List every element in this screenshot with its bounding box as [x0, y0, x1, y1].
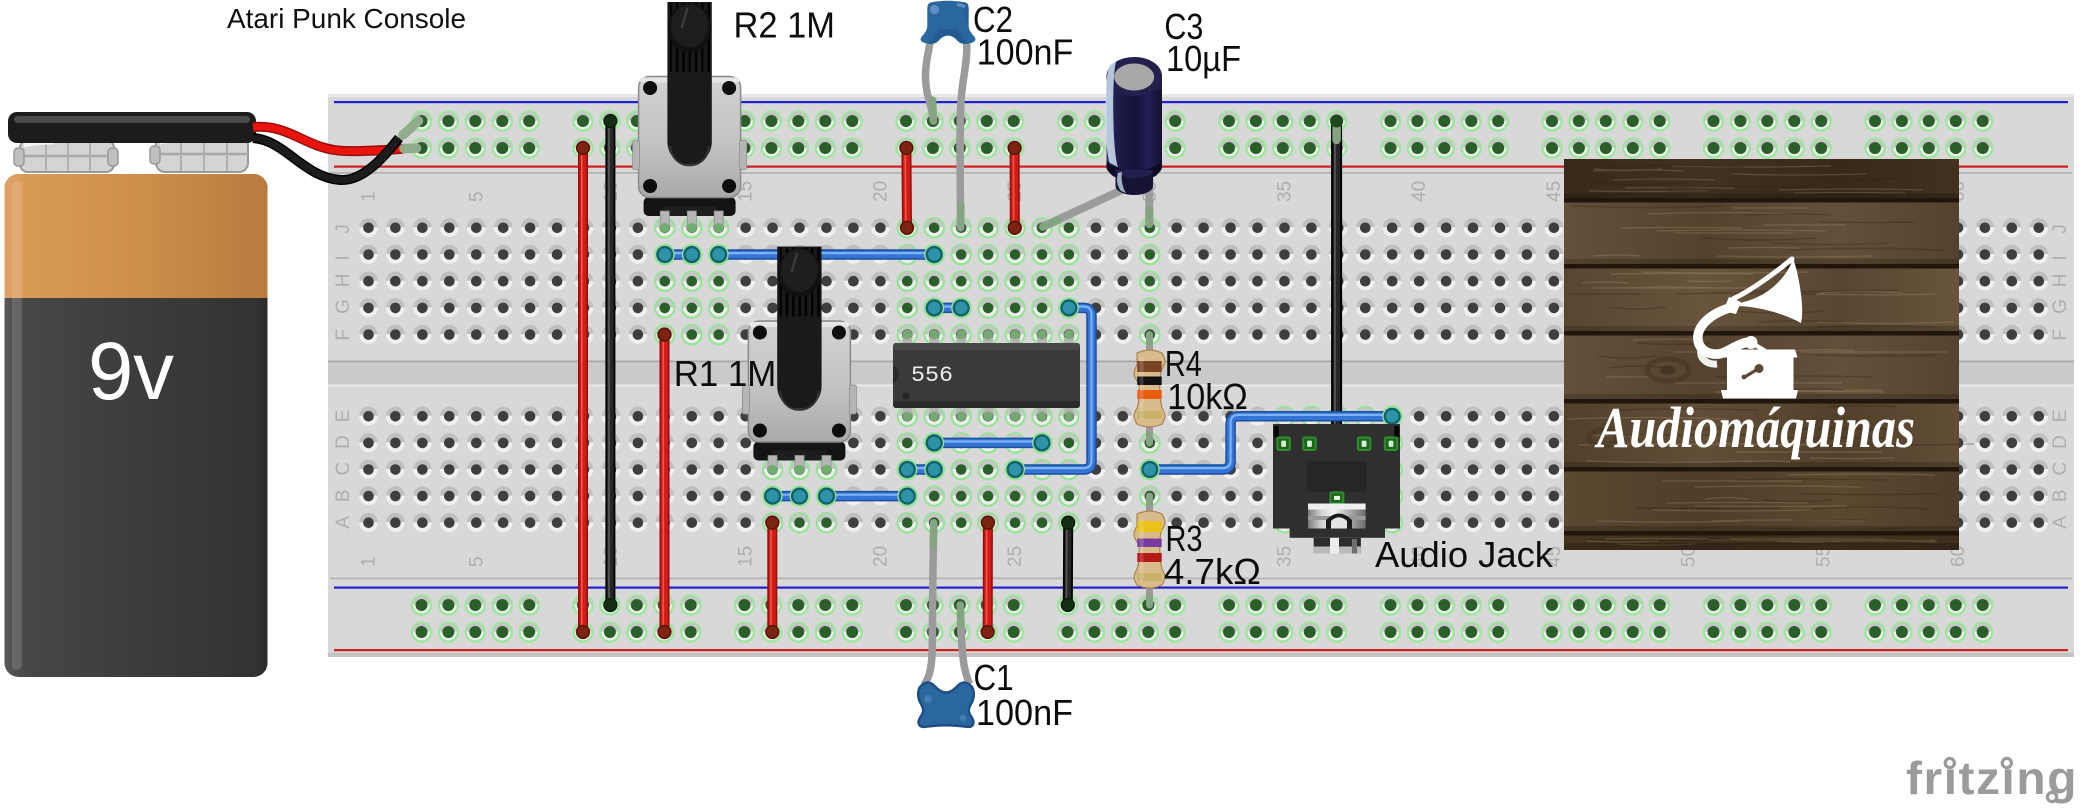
wire: blue jumper row C col21-col22 — [897, 460, 944, 480]
svg-text:Audiomáquinas: Audiomáquinas — [1594, 395, 1915, 460]
wire: battery black (-) to top rail row1 — [253, 121, 419, 180]
svg-text:B: B — [333, 489, 354, 502]
svg-text:J: J — [333, 224, 354, 234]
svg-text:I: I — [2050, 255, 2071, 260]
resistor R4 10k — [1134, 335, 1165, 443]
svg-text:R1 1M: R1 1M — [674, 353, 777, 394]
wire: blue wire row C col30 to audio jack row E col39 — [1140, 406, 1402, 479]
svg-text:Audio Jack: Audio Jack — [1375, 534, 1554, 575]
svg-text:D: D — [333, 435, 354, 449]
wire: red jumper top rail to row J col21 — [900, 142, 913, 235]
svg-text:35: 35 — [1275, 181, 1296, 202]
svg-text:C: C — [333, 462, 354, 476]
top rail red line — [334, 166, 2068, 168]
svg-text:G: G — [2050, 299, 2071, 314]
wire: red jumper row A col16 to bottom rail — [766, 516, 779, 638]
battery cap — [8, 112, 256, 143]
svg-text:Atari Punk Console: Atari Punk Console — [227, 3, 466, 34]
svg-text:40: 40 — [1409, 181, 1430, 202]
battery terminal right — [150, 136, 248, 172]
svg-text:C: C — [2050, 462, 2071, 476]
wire: black jumper row A col27 to bottom rail — [1061, 516, 1074, 611]
svg-text:5: 5 — [466, 191, 487, 202]
capacitor C3 10uF (electrolytic) — [1043, 57, 1162, 227]
svg-text:9v: 9v — [88, 326, 174, 417]
svg-text:25: 25 — [1005, 546, 1026, 567]
wire: battery red (+) to top rail row2 — [253, 127, 417, 151]
svg-text:E: E — [333, 410, 354, 423]
wire: black jumper top rail to audio jack sleeve — [1330, 115, 1343, 441]
potentiometer R1 1M — [742, 247, 856, 475]
bottom rail red line — [334, 649, 2068, 651]
svg-text:H: H — [333, 273, 354, 287]
svg-text:10kΩ: 10kΩ — [1167, 376, 1248, 417]
svg-text:10µF: 10µF — [1166, 38, 1241, 79]
wire: blue jumper row I col12-col13 — [655, 245, 702, 265]
wire: blue jumper row G col22-col23 — [924, 298, 971, 318]
battery terminal left — [14, 140, 118, 172]
svg-text:H: H — [2050, 273, 2071, 287]
svg-text:5: 5 — [466, 556, 487, 567]
breadboard column numbers — [359, 181, 1970, 567]
wire: blue wire row G col27 to row C col25 — [1005, 298, 1091, 480]
gramophone logo — [1698, 258, 1802, 399]
bottom rail blue line — [334, 587, 2068, 589]
wire: red jumper V+ left rail to bottom rail col8 — [577, 142, 590, 639]
svg-text:100nF: 100nF — [976, 692, 1073, 733]
svg-text:100nF: 100nF — [977, 32, 1074, 73]
resistor R3 4.7k — [1134, 496, 1165, 605]
svg-text:B: B — [2050, 489, 2071, 502]
svg-text:G: G — [333, 299, 354, 314]
wire: blue jumper row B col16-col17 — [763, 486, 810, 506]
wire: blue jumper row I col14-col22 — [709, 245, 945, 265]
svg-text:45: 45 — [1544, 181, 1565, 202]
svg-text:J: J — [2050, 224, 2071, 234]
svg-text:15: 15 — [736, 546, 757, 567]
breadboard — [328, 94, 2074, 657]
svg-text:556: 556 — [911, 363, 953, 388]
svg-text:20: 20 — [870, 546, 891, 567]
svg-text:E: E — [2050, 410, 2071, 423]
svg-text:1: 1 — [359, 191, 380, 202]
svg-text:F: F — [333, 329, 354, 341]
svg-text:A: A — [333, 516, 354, 529]
svg-text:R2 1M: R2 1M — [734, 5, 836, 46]
svg-text:4.7kΩ: 4.7kΩ — [1164, 551, 1261, 592]
wire: blue jumper row D col22-col26 — [924, 433, 1052, 453]
svg-text:F: F — [2050, 329, 2071, 341]
wire: red jumper row F col12 to bottom rail — [658, 328, 671, 638]
top rail blue line — [334, 101, 2068, 103]
breadboard center channel — [328, 361, 2074, 386]
svg-text:A: A — [2050, 516, 2071, 529]
capacitor C2 100nF (ceramic disc) — [921, 1, 976, 228]
power rail holes — [411, 110, 1994, 643]
svg-text:20: 20 — [870, 181, 891, 202]
potentiometer R2 1M — [633, 2, 747, 233]
svg-text:35: 35 — [1275, 546, 1296, 567]
audio jack J1 — [1273, 424, 1400, 554]
wire: red jumper row A col24 to bottom rail — [981, 516, 994, 638]
main grid holes — [359, 217, 2048, 534]
wire: blue jumper row B col18-col21 — [817, 486, 918, 506]
svg-text:1: 1 — [359, 556, 380, 567]
svg-text:D: D — [2050, 435, 2071, 449]
fritzing watermark — [1906, 752, 2078, 804]
svg-text:I: I — [333, 255, 354, 260]
breadboard row letters — [333, 224, 2071, 528]
battery 9V body — [5, 174, 268, 677]
logo panel (wood) — [1564, 159, 1974, 550]
op-amp/timer U1 556 DIP-14 — [893, 330, 1080, 421]
capacitor C1 100nF (ceramic disc) — [918, 523, 974, 727]
wire: red jumper top rail to row J col25 — [1008, 142, 1021, 235]
wire: black jumper GND top rail to bottom rail col10 — [604, 115, 617, 612]
